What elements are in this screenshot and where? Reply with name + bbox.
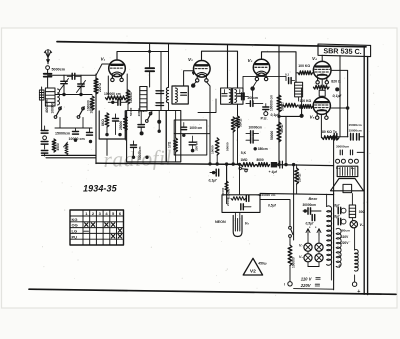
transformer core [330,210,332,280]
terminal psu left [289,266,291,282]
V1 cathode box [98,111,100,139]
resistor band a [215,138,219,155]
wire V1 grid [96,64,109,75]
svg-text:100000 cm: 100000 cm [269,95,273,111]
wire cap to coil [149,71,151,87]
capacitor C1 5000cm [44,74,52,77]
antenna terminal [46,66,50,70]
heater winding [355,250,359,272]
wire avc down [301,88,303,116]
schematic frame bottom edge [29,289,396,294]
speaker cone [331,179,364,191]
resistor 30K IF2 [236,116,240,128]
svg-text:15000cm: 15000cm [55,131,70,135]
svg-text:0,1μf: 0,1μf [209,179,218,183]
wire V2 plate top [202,51,238,87]
small choke box [39,90,44,100]
svg-text:10000cm: 10000cm [249,126,263,130]
terminal L5 [349,159,353,163]
transformer primary [327,206,332,265]
node dot below V1 [111,101,114,104]
antenna coil secondary bumps [58,89,60,105]
resistor left 4500 [52,139,56,152]
IF1 inner cap [181,93,187,96]
svg-text:15000cm: 15000cm [349,123,362,127]
wire 17ohm [175,111,177,138]
osc cap a [156,91,164,94]
svg-text:50000: 50000 [225,142,229,151]
wire frame to IF2 [227,45,229,88]
svg-text:V₈: V₈ [299,255,303,259]
svg-text:50000: 50000 [270,131,274,140]
wire output loop [331,70,348,136]
osc cap b [156,103,164,106]
V2 grid cap dot [191,83,195,87]
V1 screen box [107,76,109,95]
padder cap mid [72,73,75,79]
pot arrow [65,144,68,156]
title box SBR 535 C. [318,44,371,57]
tube V2 [194,61,211,78]
wire x293 down [293,165,295,240]
antenna coil primary [45,88,55,106]
neon lamp V9 [233,216,242,237]
tube V3 [253,59,269,75]
svg-text:10000: 10000 [211,145,215,154]
trimmer cap CV2 [80,75,82,84]
svg-text:220V: 220V [300,283,312,288]
IF2 box right [233,88,243,104]
trimmer cap CV1 [63,75,65,81]
wire x168 down [168,44,170,88]
svg-text:100000: 100000 [87,100,91,111]
tube V5 [313,97,330,114]
resistor 100000 anode [126,90,130,104]
cap osc b [131,145,137,147]
cap psu mid 2 [312,215,315,221]
svg-text:+: + [357,289,360,295]
wire V2 cathode [206,82,210,164]
svg-text:8KΩ: 8KΩ [101,119,105,126]
svg-text:220 Ω: 220 Ω [98,83,102,92]
cap psu box 1 [246,195,249,201]
wire IF2 down [237,104,239,116]
wire antenna to C1 [47,70,49,75]
svg-text:10000: 10000 [137,108,141,116]
wire V1 plate top [117,52,169,60]
wire speaker left [333,137,335,194]
bus resistor 1M [241,163,256,167]
transformer secondary [336,228,341,267]
paper speckle [41,36,383,296]
svg-text:4500: 4500 [56,143,60,150]
cap below bus [212,171,215,174]
ground-side wire left [41,87,43,130]
wire box to lamps [260,200,290,227]
cap below V1 [118,99,121,105]
svg-text:V₂: V₂ [188,57,193,62]
resistor 8K cathode [105,113,109,127]
svg-text:I: I [284,283,285,287]
svg-text:20000: 20000 [226,197,230,206]
node dot det [254,147,257,150]
svg-text:8000: 8000 [257,158,264,162]
triangle V2 rectifier [243,258,262,275]
V3 grid dot [250,86,254,90]
osc node dot [157,120,161,124]
resistor 17 ohm [174,138,178,152]
wire y116 [279,115,303,117]
IF1 inner coil [175,88,177,102]
line x340 [339,56,341,137]
oscillator box 1 [127,111,167,162]
bus resistor 8000 [257,163,270,167]
main bus [96,163,241,164]
IF2 coil right [235,90,237,103]
svg-text:220V: 220V [341,241,349,245]
resistor det load [279,104,284,106]
svg-text:V₁: V₁ [101,57,106,62]
svg-text:100000: 100000 [292,257,296,268]
table x marks [85,223,88,227]
svg-text:V₅: V₅ [310,115,315,120]
wire below V1 [108,101,118,103]
svg-text:P.U.: P.U. [261,115,268,120]
psu left rail [333,194,335,290]
resistor 80K [322,136,339,140]
electrolytic 8uf b [338,218,341,224]
psu bottom wire [294,288,334,291]
resistor 100000 grid [90,96,94,110]
cap PU coupling [263,107,269,110]
svg-text:380cm: 380cm [340,228,350,232]
switch osc [149,112,152,115]
svg-text:LG: LG [72,229,78,234]
terminal psu right [354,275,356,282]
svg-text:30Ω: 30Ω [359,210,366,214]
svg-text:1934-35: 1934-35 [83,184,118,194]
cap psu box 2 [241,204,244,210]
lamp switch contacts [307,229,309,235]
node dots tuning [62,93,65,96]
wire V2 grid to IF1 [184,71,194,86]
IF2 cap left [222,94,227,96]
line x286 [285,116,287,163]
coupling cap 150 [146,68,155,71]
cap ground b [75,128,77,132]
wire V4 top [321,55,323,61]
svg-text:4V: 4V [338,254,342,258]
junction dot plate wire [148,50,151,53]
svg-text:17Ω: 17Ω [167,141,171,148]
cap small row2 b [350,150,352,155]
svg-text:V₉: V₉ [245,221,250,226]
resistor 20K [295,168,299,184]
switch psu [289,226,292,229]
wire AVC coil down [298,97,300,101]
long line x279 [278,45,280,163]
wire plate branch to C [149,43,151,67]
wire x226 down [226,164,228,204]
svg-text:V2: V2 [250,269,256,275]
wire to neon [226,164,228,195]
svg-text:5000cm: 5000cm [52,67,66,71]
cap small row2 a [340,150,342,155]
schematic frame right edge [363,47,365,294]
svg-text:NEON: NEON [215,220,226,224]
svg-text:110 V: 110 V [301,276,313,281]
electrolytic 4uf [280,161,283,168]
cap det row 2 [246,139,251,141]
svg-text:25000: 25000 [119,121,123,130]
svg-text:KG: KG [72,217,78,222]
antenna [47,58,49,60]
svg-text:45KΩ: 45KΩ [280,124,284,133]
wire caps row [328,136,348,138]
cap grid box 2 [189,142,196,145]
wire lower tuning [55,94,92,96]
resistor 220 on x96 [94,78,98,94]
wire V3 plate top [262,52,297,83]
resistor 50000 lower [277,122,281,142]
svg-text:5,K: 5,K [241,151,247,155]
detector coil box A [140,87,147,112]
IF2 coil left [229,90,231,103]
wire V5 bottom [320,114,322,137]
svg-text:SBR 535 C.: SBR 535 C. [323,46,362,56]
wire IF1 bottom [168,103,170,111]
grid box detail [174,120,207,155]
svg-text:V₆: V₆ [360,223,365,227]
svg-text:380cm: 380cm [258,147,268,151]
resistor 50K upper [277,95,281,112]
resistor on neon wire [225,181,228,192]
cap V3 left [242,93,245,100]
svg-text:200 cm: 200 cm [195,141,199,151]
oscillator box 2 [166,111,181,162]
svg-text:100 KΩ: 100 KΩ [300,99,312,103]
svg-text:110V: 110V [341,235,349,239]
terminal L4 [336,159,340,163]
svg-text:0,5μf: 0,5μf [268,203,277,207]
svg-text:15000cm: 15000cm [349,129,362,133]
cap det series [246,103,250,105]
svg-text:100000: 100000 [51,103,55,114]
psu top wire [260,193,334,194]
tube V4 [313,61,331,79]
IF2 cap right [237,94,242,96]
cathode box dots [105,133,108,136]
wire x128 [127,104,129,111]
resistor psu box [231,197,246,201]
wire IF1 return [198,99,216,113]
coupling box mid [319,90,325,96]
svg-text:1000 cm: 1000 cm [190,126,203,130]
wire switch bus [55,127,92,129]
svg-text:100000: 100000 [129,92,133,103]
svg-text:PU: PU [72,234,78,239]
resistor 100000 psu [289,237,291,245]
cap osc a [138,125,144,128]
cap det row 1 [246,133,251,135]
wire top tuning bus [48,74,64,76]
svg-text:V₃: V₃ [248,58,253,63]
IF1 coil bumps [166,87,168,102]
svg-text:1MΩ: 1MΩ [241,158,248,162]
cap ground c [89,128,91,133]
wire cathode down [106,139,108,155]
svg-text:V₄: V₄ [312,56,317,61]
wire coil A down [142,110,144,113]
resistor 100K grid V4 [298,71,313,75]
psu cap box [222,195,260,213]
svg-text:50000cm: 50000cm [138,146,142,160]
cap ground a [44,126,46,131]
cap cathode [115,114,117,119]
resistor 820 cathode V4 [314,85,330,89]
wire drop x161 [160,52,162,111]
svg-text:L₄: L₄ [336,166,340,170]
svg-text:0,1: 0,1 [285,73,290,77]
dial lamp V7a [304,243,312,251]
svg-text:–1100000 cm: –1100000 cm [257,193,276,197]
resistor 100K grid V5 [299,105,313,109]
speaker transformer [337,166,358,176]
cap out a [351,134,354,140]
wire V3 grid down [252,91,254,101]
electrolytic 8uf a [338,207,341,213]
choke box [349,205,355,218]
band switch S2 [82,107,85,110]
cap grid box [181,127,187,129]
svg-text:Bexc: Bexc [309,197,318,201]
resistor band b [231,117,235,132]
IF1 box [172,86,188,104]
node dot y116 [300,114,304,118]
svg-text:100 KΩ: 100 KΩ [298,64,310,68]
PU terminal [264,112,268,116]
IF2 box left [221,88,232,104]
osc dots [132,156,135,159]
svg-text:100000 cm: 100000 cm [104,92,121,96]
switch on psu wire [239,167,242,170]
cap out b [357,134,360,140]
svg-text:50000: 50000 [129,107,133,116]
bus wire right [277,164,333,167]
ground cap stack bottom [41,151,47,154]
dial lamp V7b [315,243,323,251]
svg-text:20KΩ: 20KΩ [298,173,302,182]
wave band table grid [70,210,124,245]
band switch S1 [59,107,62,110]
dial lamp V8b [315,254,323,262]
left block bottom line [42,154,96,156]
wire speaker right frame [357,151,364,153]
wire AVC top [243,76,286,88]
wire C1 down [47,77,49,88]
node dot cathode V4 [335,87,339,91]
svg-text:30KΩ: 30KΩ [238,118,242,127]
cap psu mid [303,210,308,212]
cap row pair 1 [334,134,337,140]
tube V1 [109,60,126,77]
pilot lamp V6 [350,221,357,228]
svg-text:30000cm: 30000cm [336,145,349,149]
lamp bottom wires [307,262,309,267]
resistor osc 25K [124,116,128,131]
wire IF2 res down [237,128,239,164]
svg-text:30000cm: 30000cm [303,203,317,207]
dial lamp V8a [304,254,312,262]
svg-text:+ 4μf: + 4μf [269,170,278,174]
svg-text:450ω: 450ω [258,262,267,266]
bus block [271,162,277,167]
schematic frame top edge [57,42,366,47]
cathode line x96 [95,74,97,164]
trimmer mid [289,78,292,84]
resistor 100000 screen [106,96,127,100]
AVC coil box [295,82,303,97]
bus node dots [208,162,211,165]
svg-text:OG: OG [72,223,78,228]
